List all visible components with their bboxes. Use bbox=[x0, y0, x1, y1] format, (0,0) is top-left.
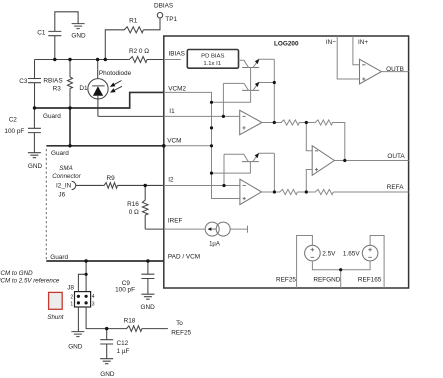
resistor R2 bbox=[128, 57, 147, 63]
svg-text:REF25: REF25 bbox=[171, 329, 191, 336]
wire REF25 bbox=[297, 236, 313, 289]
wire U2 output row bbox=[262, 191, 409, 193]
svg-text:REFA: REFA bbox=[387, 184, 404, 191]
ground GND C12 bbox=[100, 359, 113, 364]
svg-text:100 pF: 100 pF bbox=[115, 287, 135, 294]
wire VCM interior bbox=[164, 145, 212, 147]
svg-text:Guard: Guard bbox=[50, 254, 68, 261]
svg-text:C2: C2 bbox=[9, 116, 18, 123]
capacitor C2 bbox=[33, 108, 35, 153]
svg-text:GND: GND bbox=[71, 33, 86, 40]
resistor R8 bbox=[314, 189, 333, 194]
svg-text:R18: R18 bbox=[124, 318, 136, 325]
svg-text:2: 2 bbox=[70, 295, 73, 301]
resistor R3 RBIAS bbox=[69, 60, 71, 109]
svg-text:D1: D1 bbox=[79, 85, 88, 92]
svg-text:2.5V: 2.5V bbox=[322, 250, 336, 257]
wire I1 to box bbox=[98, 115, 164, 117]
op-amp U3 (OUTA) bbox=[312, 146, 334, 176]
wire J8 to guard bbox=[78, 261, 86, 292]
wire REF165 bbox=[370, 236, 384, 289]
PD BIAS block bbox=[187, 50, 238, 69]
resistor R7 bbox=[279, 189, 298, 194]
resistor R18 bbox=[126, 326, 142, 332]
resistor R5 bbox=[280, 120, 300, 125]
svg-text:²CM to 2.5V reference: ²CM to 2.5V reference bbox=[0, 278, 60, 285]
svg-text:¹CM to GND: ¹CM to GND bbox=[0, 270, 33, 277]
ground GND J8 bbox=[71, 332, 84, 337]
svg-text:GND: GND bbox=[68, 344, 83, 351]
svg-text:IREF: IREF bbox=[168, 218, 183, 225]
ground GND C2 bbox=[28, 153, 41, 158]
resistor R6 bbox=[314, 120, 332, 125]
jumper J8 bbox=[75, 292, 91, 307]
capacitor C3 bbox=[34, 60, 36, 109]
wire guard PAD/VCM bbox=[46, 260, 164, 262]
svg-text:OUTB: OUTB bbox=[386, 66, 404, 73]
wire I1 interior bbox=[164, 115, 240, 117]
op-amp U4 (OUTB) bbox=[360, 59, 382, 84]
svg-text:GND: GND bbox=[100, 371, 115, 378]
svg-text:GND: GND bbox=[140, 304, 155, 311]
svg-text:1.1x I1: 1.1x I1 bbox=[203, 61, 221, 67]
svg-text:Guard: Guard bbox=[51, 150, 69, 157]
wire Q1 Q2 base to VCM2 bbox=[212, 68, 251, 103]
svg-text:1µA: 1µA bbox=[209, 241, 220, 247]
photodiode D1 bbox=[97, 60, 99, 79]
voltage source 1.65V bbox=[362, 245, 378, 261]
resistor R9 bbox=[103, 183, 117, 189]
svg-text:J8: J8 bbox=[67, 285, 74, 292]
wire REFGND bbox=[312, 261, 370, 288]
junction dots exterior bbox=[33, 58, 166, 331]
svg-text:4: 4 bbox=[92, 294, 95, 300]
shunt block bbox=[49, 292, 63, 309]
svg-text:SMA: SMA bbox=[59, 165, 72, 172]
svg-text:LOG200: LOG200 bbox=[274, 40, 299, 47]
wire VCM line bbox=[46, 145, 163, 147]
transistor Q2 bbox=[242, 89, 259, 91]
wire Q3 collector to I2 bbox=[223, 154, 225, 185]
op-amp U2 (I2 channel) bbox=[240, 179, 262, 204]
SMA connector dashed boundary bbox=[45, 149, 47, 260]
svg-text:R2 0 Ω: R2 0 Ω bbox=[129, 48, 149, 55]
wire N2 to U3 non-inverting input bbox=[306, 170, 312, 193]
current source 1uA bbox=[164, 228, 206, 230]
wire I2 interior bbox=[164, 185, 240, 187]
svg-text:IN−: IN− bbox=[326, 39, 336, 46]
svg-text:OUTA: OUTA bbox=[387, 153, 405, 160]
wire I2 bbox=[76, 184, 164, 186]
wire IBIAS stub bbox=[164, 59, 181, 61]
svg-text:TP1: TP1 bbox=[165, 16, 177, 23]
svg-text:PAD / VCM: PAD / VCM bbox=[168, 254, 200, 261]
voltage source 2.5V bbox=[305, 245, 321, 261]
svg-text:VCM2: VCM2 bbox=[168, 86, 186, 93]
resistor R1 bbox=[105, 18, 160, 60]
svg-text:1: 1 bbox=[70, 301, 73, 307]
svg-text:Shunt: Shunt bbox=[47, 314, 63, 321]
junction dots interior bbox=[210, 81, 347, 271]
wire IN+ stub to U4 bbox=[353, 36, 360, 65]
capacitor C12 bbox=[106, 329, 108, 359]
svg-text:To: To bbox=[176, 320, 183, 327]
wire U3 output OUTA bbox=[334, 160, 408, 162]
svg-text:IBIAS: IBIAS bbox=[169, 50, 185, 57]
svg-text:DBIAS: DBIAS bbox=[154, 2, 173, 9]
svg-text:Photodiode: Photodiode bbox=[99, 70, 132, 77]
svg-text:R3: R3 bbox=[53, 85, 62, 92]
wire top bus IBIAS bbox=[35, 59, 164, 61]
wire VCM2 guard net bbox=[35, 92, 164, 108]
svg-text:I2_IN: I2_IN bbox=[56, 183, 72, 190]
svg-text:GND: GND bbox=[28, 163, 43, 170]
svg-text:100 pF: 100 pF bbox=[4, 128, 24, 135]
svg-text:I2: I2 bbox=[168, 177, 174, 184]
svg-text:IN+: IN+ bbox=[358, 39, 368, 46]
wire J8 pin3 to R18 bbox=[86, 307, 168, 329]
wire Q2 collector to I1 bbox=[222, 83, 224, 116]
transistor Q3 bbox=[242, 161, 259, 163]
svg-text:C3: C3 bbox=[19, 78, 28, 85]
wire J8 pin1 to gnd bbox=[77, 307, 79, 332]
svg-text:R16: R16 bbox=[127, 201, 139, 208]
svg-text:REFGND: REFGND bbox=[313, 276, 340, 283]
wire IN- stub to U4 bbox=[337, 36, 359, 79]
svg-text:R9: R9 bbox=[107, 175, 116, 182]
svg-text:REF165: REF165 bbox=[358, 276, 382, 283]
svg-text:3: 3 bbox=[92, 301, 95, 307]
svg-text:C12: C12 bbox=[117, 340, 129, 347]
test point TP1 DBIAS bbox=[157, 13, 162, 18]
svg-text:J6: J6 bbox=[58, 192, 65, 199]
svg-text:1 µF: 1 µF bbox=[117, 348, 130, 355]
ground GND C9 bbox=[141, 294, 154, 299]
svg-text:C1: C1 bbox=[37, 29, 46, 36]
LOG200 IC box bbox=[164, 36, 409, 288]
svg-text:1.65V: 1.65V bbox=[343, 250, 360, 257]
svg-text:0 Ω: 0 Ω bbox=[129, 209, 139, 216]
transistor Q1 bbox=[242, 67, 259, 69]
svg-text:PD BIAS: PD BIAS bbox=[201, 54, 224, 60]
wire U4 output OUTB bbox=[381, 71, 408, 73]
wire N1 to U3 inverting input bbox=[306, 123, 312, 151]
wire U1 output row bbox=[262, 123, 345, 161]
wire VCM2 interior bbox=[164, 92, 240, 198]
wire Q3 emitter bus to U2 output bbox=[273, 153, 275, 192]
svg-text:Connector: Connector bbox=[52, 173, 81, 180]
wire emitter bus to U1 output bbox=[273, 59, 275, 122]
svg-text:Guard: Guard bbox=[43, 113, 61, 120]
svg-text:VCM: VCM bbox=[167, 138, 181, 145]
svg-text:R1: R1 bbox=[129, 18, 138, 25]
ground GND top bbox=[72, 24, 85, 29]
capacitor C9 bbox=[147, 261, 149, 294]
wire IREF bbox=[145, 228, 164, 230]
light arrows into D1 bbox=[114, 81, 122, 91]
resistor R16 bbox=[144, 185, 146, 229]
capacitor C1 bbox=[55, 12, 78, 60]
svg-text:I1: I1 bbox=[169, 108, 175, 115]
wire guard drop bbox=[69, 108, 71, 146]
svg-text:REF25: REF25 bbox=[276, 276, 296, 283]
wire Q3 base to VCM2 bbox=[212, 162, 251, 174]
svg-text:RBIAS: RBIAS bbox=[43, 77, 62, 84]
op-amp U1 (I1 channel) bbox=[240, 110, 262, 134]
